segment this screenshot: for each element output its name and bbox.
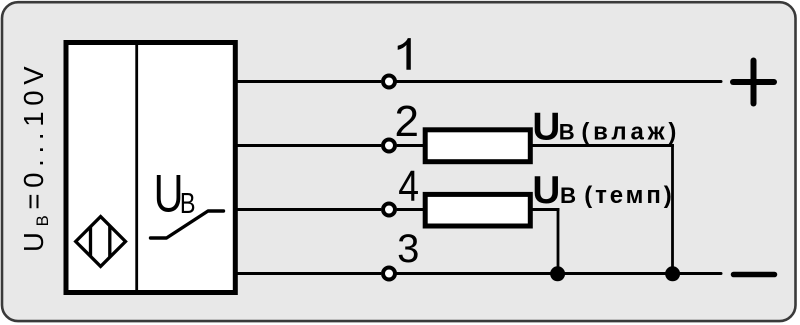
label Uв (темп): [532, 169, 674, 212]
svg-text:2: 2: [395, 97, 419, 146]
wire 4 to resistor: [397, 208, 426, 211]
svg-text:B: B: [180, 187, 196, 220]
vertical wire from R2 down: [557, 208, 560, 273]
svg-text:В: В: [559, 120, 575, 145]
wire 3 right: [397, 272, 721, 275]
svg-text:U: U: [532, 169, 560, 212]
wire from R2 right: [527, 208, 559, 211]
svg-text:3: 3: [397, 227, 419, 271]
terminal 1 circle: [383, 76, 395, 88]
wire 1 left: [235, 80, 381, 83]
svg-text:U: U: [154, 165, 184, 224]
pin label 1: [398, 38, 411, 70]
sensor box divider: [135, 43, 138, 293]
svg-text:U: U: [532, 106, 560, 149]
terminal 2 circle: [383, 140, 395, 152]
wire 3 left: [235, 272, 381, 275]
svg-text:В: В: [560, 183, 576, 208]
minus terminal: [734, 272, 775, 278]
resistor load R1 (humidity): [425, 130, 530, 162]
terminal 4 circle: [383, 204, 395, 216]
sensor box U1: [66, 43, 235, 293]
wire 4 left: [235, 208, 381, 211]
junction dot at R2/wire3: [550, 266, 565, 281]
svg-text:(влаж): (влаж): [581, 119, 680, 146]
label Uв (влаж): [532, 106, 680, 149]
terminal 3 circle: [383, 268, 395, 280]
plus terminal: [733, 61, 774, 104]
sensor symbol diamond: [76, 217, 126, 267]
switch symbol: [151, 211, 224, 238]
resistor load R2 (temperature): [425, 194, 530, 226]
wire from R1 right: [530, 144, 674, 147]
svg-text:4: 4: [398, 161, 419, 211]
vertical wire from R1 down: [671, 144, 674, 273]
junction dot at R1/wire3: [665, 266, 680, 281]
wire 2 to resistor: [397, 144, 426, 147]
svg-text:(темп): (темп): [584, 182, 674, 209]
wire 1 right: [397, 80, 721, 83]
wire 2 left: [235, 144, 381, 147]
